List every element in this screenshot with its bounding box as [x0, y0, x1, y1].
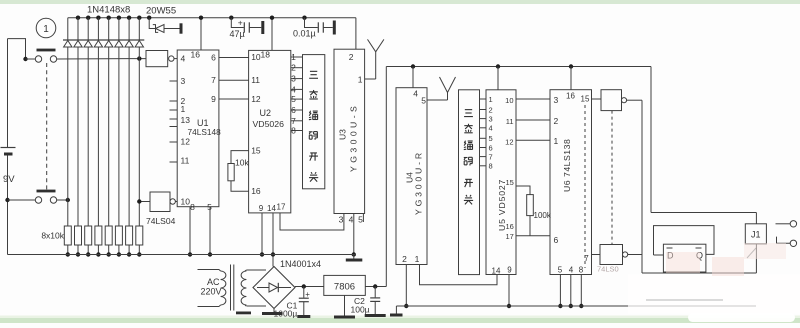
svg-text:11: 11 — [181, 156, 190, 166]
svg-text:13: 13 — [181, 115, 191, 125]
svg-text:74LS148: 74LS148 — [188, 127, 222, 137]
svg-text:3: 3 — [339, 215, 344, 225]
svg-text:10: 10 — [181, 197, 191, 207]
svg-text:10: 10 — [505, 96, 513, 105]
svg-text:2: 2 — [554, 116, 559, 126]
svg-text:18: 18 — [261, 50, 271, 60]
svg-text:1: 1 — [43, 24, 49, 35]
svg-text:15: 15 — [581, 95, 590, 104]
svg-text:5: 5 — [558, 266, 563, 275]
svg-text:5: 5 — [489, 134, 493, 143]
svg-text:2: 2 — [291, 63, 296, 73]
svg-text:1: 1 — [291, 52, 296, 62]
svg-text:9: 9 — [507, 266, 512, 275]
svg-text:3: 3 — [291, 74, 296, 84]
svg-text:6: 6 — [291, 105, 296, 115]
svg-text:9: 9 — [259, 204, 264, 213]
svg-text:16: 16 — [566, 92, 575, 101]
svg-text:9V: 9V — [3, 174, 15, 185]
svg-text:220V: 220V — [201, 287, 222, 297]
svg-text:14: 14 — [492, 267, 501, 276]
svg-text:+: + — [238, 18, 243, 28]
svg-text:6: 6 — [211, 53, 216, 63]
svg-text:10k: 10k — [235, 158, 249, 168]
svg-text:5: 5 — [421, 96, 426, 106]
svg-text:17: 17 — [277, 203, 286, 212]
svg-text:4: 4 — [181, 54, 186, 64]
svg-text:8: 8 — [190, 202, 195, 212]
svg-text:1: 1 — [358, 75, 363, 85]
svg-text:15: 15 — [251, 146, 261, 156]
svg-text:7806: 7806 — [334, 282, 355, 293]
svg-text:16: 16 — [191, 50, 201, 60]
svg-text:6: 6 — [489, 143, 493, 152]
svg-text:12: 12 — [251, 94, 261, 104]
svg-text:6: 6 — [554, 235, 559, 245]
svg-text:8: 8 — [489, 162, 493, 171]
svg-text:8: 8 — [291, 126, 296, 136]
svg-text:12: 12 — [181, 137, 191, 147]
svg-text:17: 17 — [505, 232, 513, 241]
svg-text:3: 3 — [181, 76, 186, 86]
svg-text:4: 4 — [489, 124, 493, 133]
svg-text:7: 7 — [584, 254, 589, 263]
svg-text:5: 5 — [358, 215, 363, 225]
svg-text:1000µ: 1000µ — [274, 309, 298, 319]
svg-text:3: 3 — [489, 114, 493, 123]
svg-text:3: 3 — [554, 95, 559, 105]
svg-text:7: 7 — [291, 116, 296, 126]
svg-text:100k: 100k — [534, 211, 552, 220]
svg-text:7: 7 — [211, 75, 216, 85]
svg-text:2: 2 — [489, 105, 493, 114]
svg-text:2: 2 — [349, 52, 354, 62]
svg-text:U3: U3 — [338, 129, 348, 140]
svg-text:100µ: 100µ — [351, 305, 370, 315]
svg-text:1: 1 — [181, 104, 186, 114]
svg-text:4: 4 — [291, 84, 296, 94]
svg-text:8x10k: 8x10k — [41, 231, 64, 241]
svg-text:5: 5 — [291, 94, 296, 104]
svg-text:4: 4 — [413, 89, 418, 99]
svg-text:8: 8 — [579, 266, 584, 275]
svg-text:1: 1 — [554, 136, 559, 146]
svg-text:U2: U2 — [260, 108, 272, 118]
svg-text:AC: AC — [207, 277, 220, 287]
svg-text:47µ: 47µ — [230, 29, 245, 39]
svg-text:16: 16 — [251, 186, 261, 196]
svg-text:YG300U-S: YG300U-S — [349, 103, 359, 172]
svg-text:74LS0: 74LS0 — [597, 265, 619, 274]
svg-text:1N4148x8: 1N4148x8 — [87, 5, 130, 16]
svg-text:J1: J1 — [751, 230, 761, 240]
svg-text:YG300U-R: YG300U-R — [414, 150, 424, 215]
svg-text:9: 9 — [211, 94, 216, 104]
svg-text:1: 1 — [489, 95, 493, 104]
svg-text:4: 4 — [349, 215, 354, 225]
svg-text:20W55: 20W55 — [146, 6, 176, 17]
svg-text:+: + — [305, 290, 310, 299]
svg-text:VD5026: VD5026 — [253, 119, 285, 129]
svg-text:10: 10 — [251, 52, 261, 62]
svg-text:11: 11 — [251, 75, 260, 85]
svg-text:7: 7 — [489, 152, 493, 161]
svg-text:1N4001x4: 1N4001x4 — [280, 259, 321, 269]
svg-text:12: 12 — [505, 137, 513, 146]
svg-text:1: 1 — [415, 254, 420, 264]
svg-text:2: 2 — [402, 254, 407, 264]
svg-text:4: 4 — [569, 266, 574, 275]
svg-text:U5 VD5027: U5 VD5027 — [497, 179, 507, 231]
svg-text:74LS04: 74LS04 — [146, 216, 176, 226]
svg-text:0.01µ: 0.01µ — [293, 29, 316, 39]
svg-text:14: 14 — [267, 204, 276, 213]
svg-text:U6 74LS138: U6 74LS138 — [562, 139, 572, 192]
svg-text:11: 11 — [506, 117, 514, 126]
